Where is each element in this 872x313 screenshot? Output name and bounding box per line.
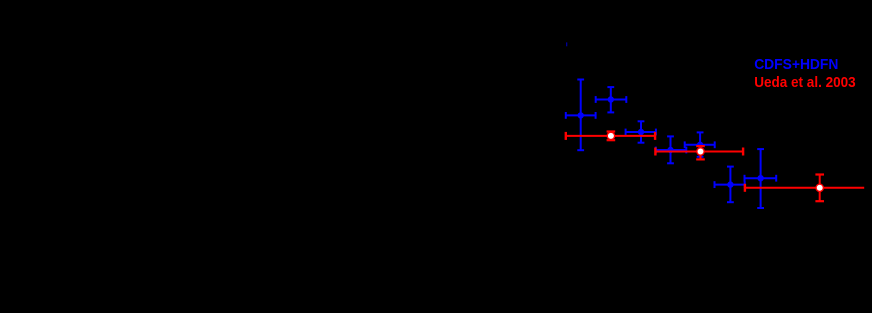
red open-circle marker R2: [697, 148, 704, 155]
blue data point B4: [656, 136, 687, 163]
blue data point B1: [566, 79, 596, 150]
red data point R3 error bars: [745, 175, 865, 202]
blue data point B7: [744, 149, 776, 208]
blue data point B2: [596, 87, 627, 113]
blue data point B3: [625, 121, 656, 143]
red data point R2 error bars: [655, 146, 743, 159]
svg-text:Ueda et al. 2003: Ueda et al. 2003: [754, 74, 856, 91]
red open-circle marker R3: [816, 184, 823, 191]
faint upper-limit tick: [566, 42, 567, 46]
red open-circle marker R1: [607, 132, 614, 139]
svg-text:CDFS+HDFN: CDFS+HDFN: [754, 56, 838, 73]
blue data point B5: [685, 132, 715, 157]
red data point R1 error bars: [566, 132, 656, 141]
blue data point B6: [714, 166, 745, 202]
